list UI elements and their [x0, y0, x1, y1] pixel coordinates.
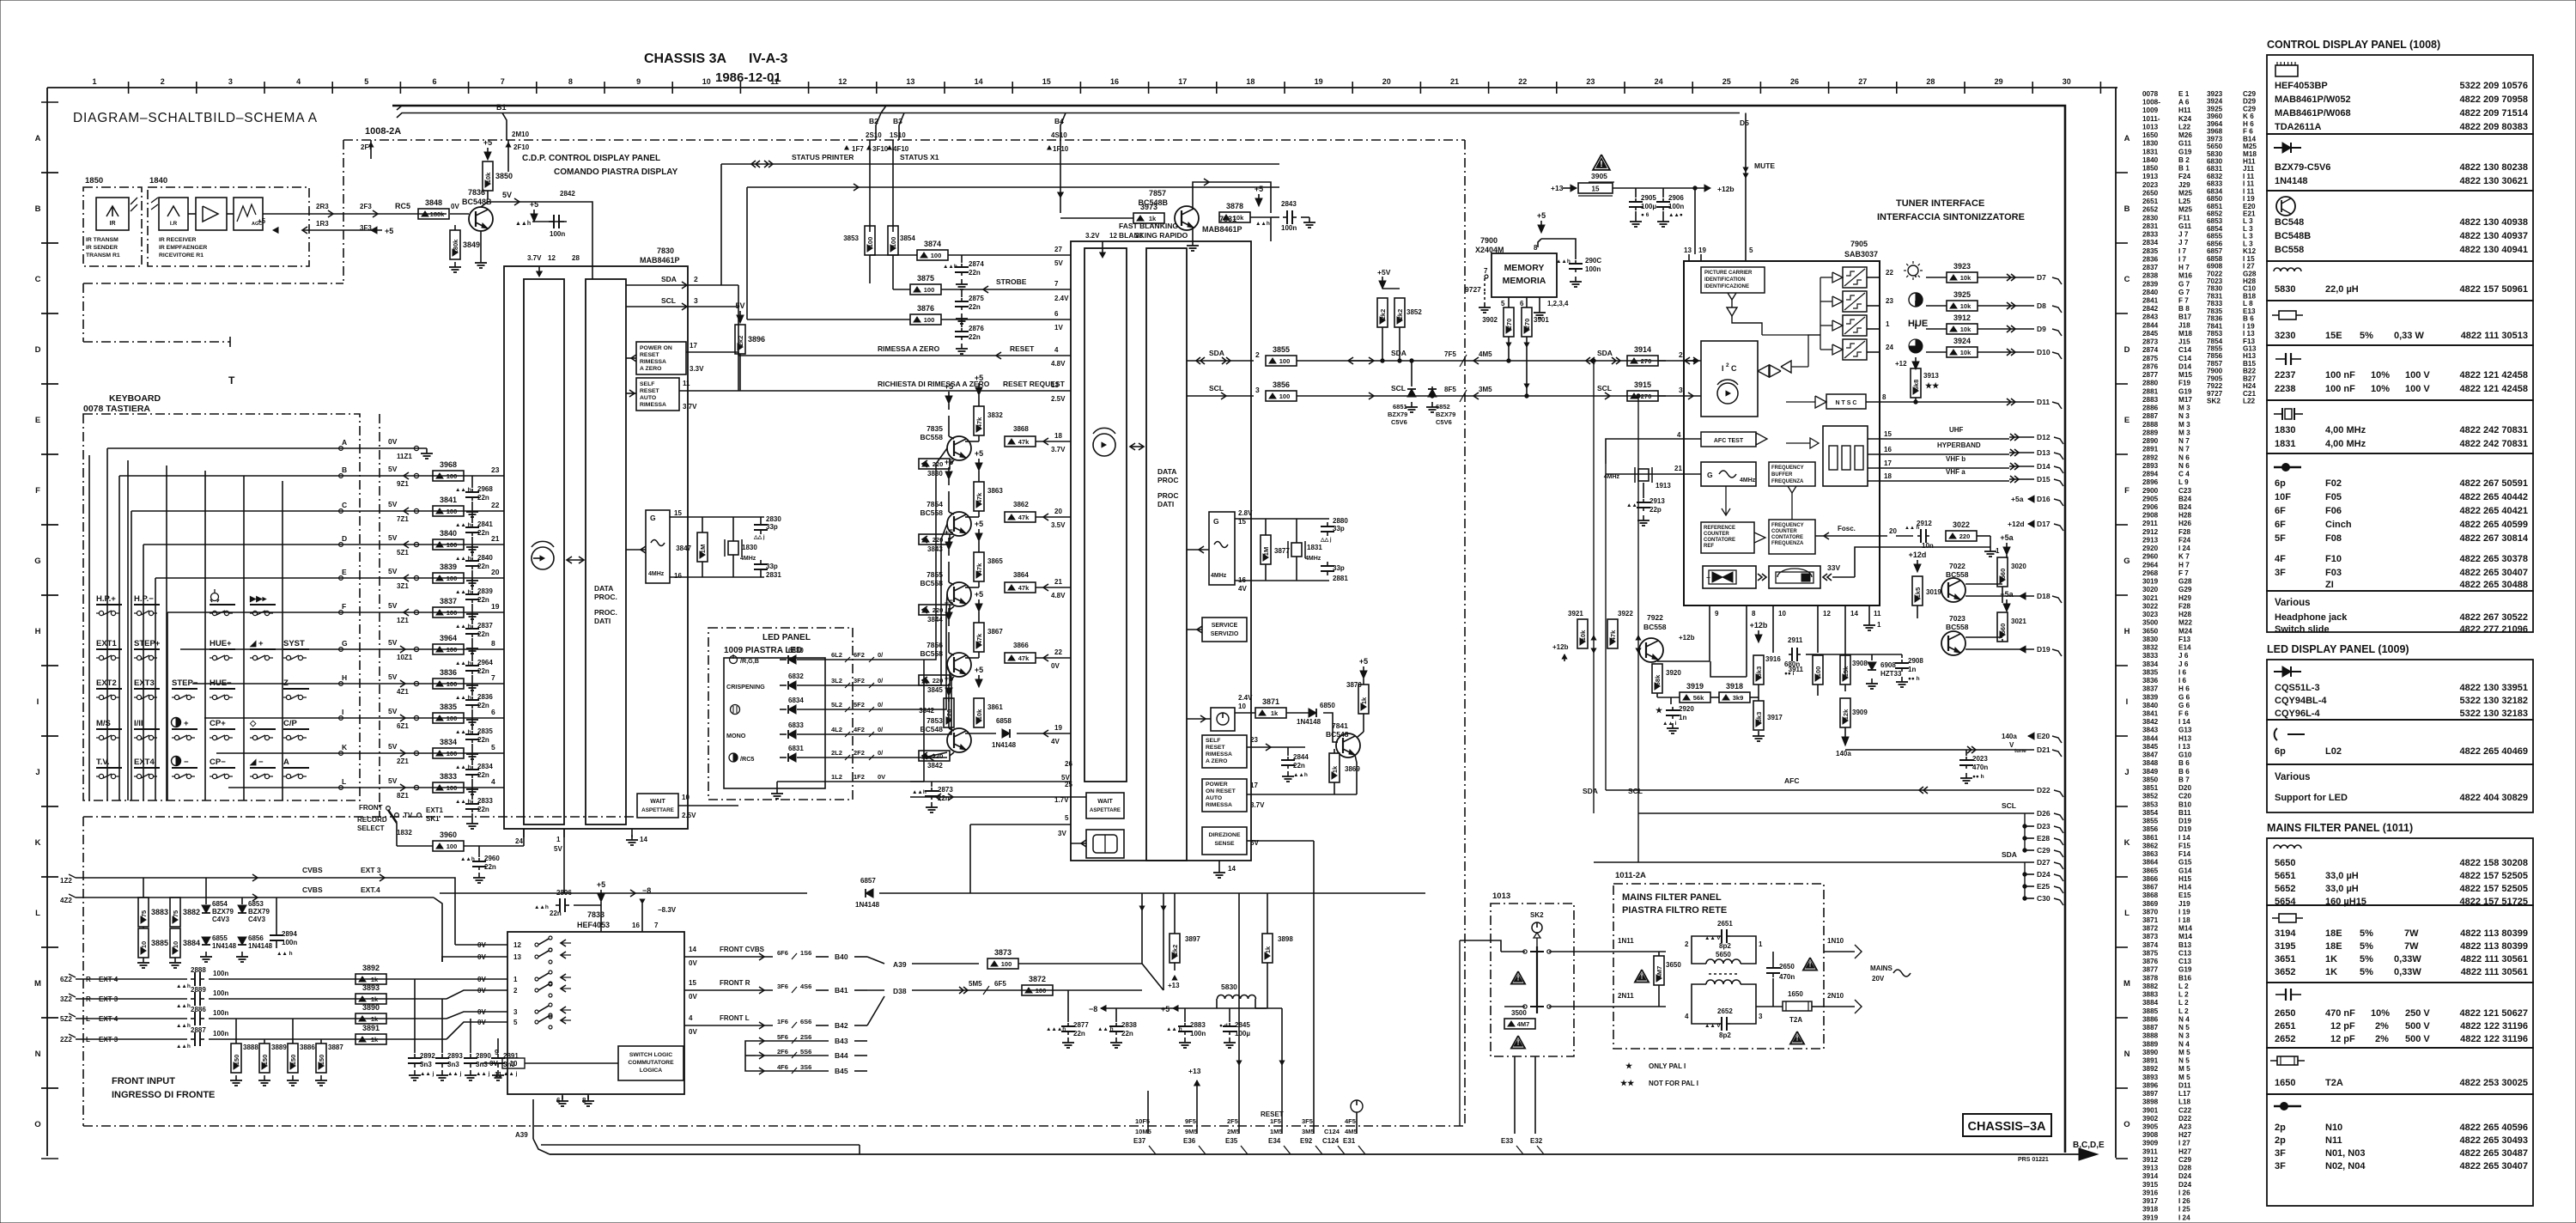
svg-text:4822 121 42458: 4822 121 42458 — [2459, 384, 2528, 394]
svg-text:T2A: T2A — [1789, 1016, 1802, 1024]
transistor 7835 BC558 — [947, 436, 971, 460]
svg-text:H 7: H 7 — [2178, 561, 2190, 569]
svg-text:4822 121 50627: 4822 121 50627 — [2459, 1008, 2528, 1019]
svg-text:2845: 2845 — [1235, 1021, 1250, 1029]
svg-text:18: 18 — [1246, 77, 1255, 86]
svg-text:BZX79-C5V6: BZX79-C5V6 — [2275, 162, 2330, 173]
svg-text:IDENTIFICATION: IDENTIFICATION — [1704, 277, 1746, 283]
svg-text:BC548B: BC548B — [2275, 231, 2311, 241]
svg-text:M18: M18 — [2178, 330, 2192, 338]
svg-text:2881: 2881 — [1333, 575, 1348, 582]
svg-text:7023: 7023 — [1949, 614, 1965, 623]
svg-text:△△ j: △△ j — [1320, 537, 1332, 543]
svg-text:22n: 22n — [477, 771, 489, 779]
svg-text:3230: 3230 — [2275, 331, 2295, 341]
svg-text:7905: 7905 — [1850, 240, 1868, 248]
svg-text:3Z1: 3Z1 — [397, 582, 409, 590]
svg-text:M14: M14 — [2178, 925, 2192, 933]
svg-text:4822 265 30378: 4822 265 30378 — [2459, 554, 2528, 564]
svg-text:3886: 3886 — [300, 1044, 315, 1051]
svg-text:M25: M25 — [2178, 206, 2192, 214]
svg-text:+5: +5 — [385, 227, 393, 235]
svg-text:3854: 3854 — [2142, 809, 2159, 817]
svg-text:2841: 2841 — [2142, 297, 2159, 305]
svg-text:4MHz: 4MHz — [648, 571, 665, 577]
svg-text:3844: 3844 — [2142, 734, 2159, 742]
svg-text:J15: J15 — [2178, 338, 2190, 346]
resistor 3856 100 — [1266, 391, 1297, 401]
svg-text:3847: 3847 — [676, 545, 691, 552]
parts box capacitors 2237/2238 — [2267, 345, 2533, 400]
svg-text:5V: 5V — [388, 500, 398, 508]
svg-text:4.8V: 4.8V — [1051, 592, 1066, 599]
svg-text:3911: 3911 — [1789, 666, 1804, 673]
svg-text:4S10: 4S10 — [1051, 131, 1067, 139]
svg-text:+5: +5 — [1537, 211, 1546, 220]
svg-text:2k2: 2k2 — [1379, 309, 1387, 320]
svg-text:7841: 7841 — [1332, 721, 1348, 730]
svg-text:12: 12 — [1823, 610, 1831, 618]
svg-text:1n: 1n — [1679, 714, 1686, 721]
svg-text:2831: 2831 — [766, 571, 781, 579]
keyboard line E — [341, 577, 504, 579]
svg-text:2M10: 2M10 — [512, 131, 530, 138]
resistor 3915 270 — [1627, 391, 1658, 401]
svg-text:3864: 3864 — [1013, 571, 1029, 579]
svg-text:TUNER INTERFACE: TUNER INTERFACE — [1896, 198, 1984, 209]
svg-text:E15: E15 — [2178, 891, 2191, 899]
svg-text:BZX79: BZX79 — [1388, 411, 1407, 418]
resistor 3840 100 — [433, 539, 464, 550]
svg-text:2M5: 2M5 — [1227, 1128, 1240, 1135]
svg-text:B 2: B 2 — [2178, 156, 2190, 164]
svg-text:8p2: 8p2 — [1719, 1031, 1731, 1039]
svg-text:2.8V: 2.8V — [1238, 509, 1253, 517]
svg-text:E25: E25 — [2037, 882, 2050, 891]
svg-text:B,C,D,E: B,C,D,E — [2073, 1141, 2105, 1150]
svg-text:4822 267 50591: 4822 267 50591 — [2459, 478, 2528, 489]
svg-text:3909: 3909 — [2142, 1140, 2159, 1147]
svg-text:3834: 3834 — [2142, 660, 2159, 668]
svg-text:3863: 3863 — [2142, 850, 2159, 858]
svg-text:+12b: +12b — [1679, 634, 1695, 642]
svg-text:11: 11 — [495, 1071, 502, 1079]
svg-text:VHF b: VHF b — [1946, 455, 1965, 463]
svg-text:4M5: 4M5 — [1479, 350, 1492, 358]
svg-text:SK2: SK2 — [2207, 398, 2221, 405]
svg-text:●● h: ●● h — [1908, 676, 1920, 682]
svg-text:E13: E13 — [2243, 307, 2256, 315]
svg-text:2845: 2845 — [2142, 330, 2159, 338]
svg-text:◢ +: ◢ + — [249, 639, 264, 648]
svg-text:I 6: I 6 — [2178, 668, 2187, 676]
svg-text:J18: J18 — [2178, 321, 2190, 329]
svg-text:2831: 2831 — [2142, 222, 2159, 230]
svg-text:3853: 3853 — [2142, 800, 2159, 808]
svg-text:AUTO: AUTO — [1206, 795, 1222, 801]
diode 6850 1N4148 — [1309, 709, 1316, 717]
box WAIT ASPETTARE IC2 — [1086, 793, 1124, 818]
capacitor 2920 1n — [1670, 697, 1672, 704]
+13 arrow bottom — [1194, 1080, 1200, 1086]
svg-text:14: 14 — [689, 946, 696, 953]
svg-text:0V: 0V — [477, 976, 486, 983]
svg-text:3843: 3843 — [2142, 727, 2159, 734]
svg-text:3964: 3964 — [440, 634, 457, 642]
svg-text:E: E — [2124, 416, 2129, 425]
svg-text:▲▲ h: ▲▲ h — [455, 695, 471, 701]
svg-text:5Z1: 5Z1 — [397, 549, 409, 557]
svg-text:3500: 3500 — [1511, 1009, 1527, 1017]
svg-text:2843: 2843 — [2142, 313, 2159, 321]
svg-text:3n3: 3n3 — [447, 1061, 459, 1068]
svg-text:4822 113 80399: 4822 113 80399 — [2460, 928, 2528, 939]
svg-text:3847: 3847 — [2142, 751, 2159, 759]
svg-text:WAIT: WAIT — [650, 799, 665, 805]
svg-text:A23: A23 — [2178, 1123, 2191, 1131]
svg-text:2875: 2875 — [2142, 355, 2159, 362]
sample hold cell 2 — [1832, 296, 1843, 307]
svg-text:3020: 3020 — [2011, 563, 2026, 570]
svg-text:20V: 20V — [1872, 975, 1885, 983]
svg-text:E: E — [342, 568, 347, 576]
resistor 3896 2k2 — [735, 325, 745, 354]
svg-text:3845: 3845 — [927, 686, 943, 694]
svg-text:6851: 6851 — [1393, 403, 1407, 411]
svg-text:4MHz: 4MHz — [1740, 478, 1756, 484]
svg-text:3861: 3861 — [987, 703, 1003, 711]
svg-text:M25: M25 — [2178, 189, 2192, 197]
svg-text:L 3: L 3 — [2243, 225, 2253, 233]
band box — [1823, 426, 1868, 486]
svg-text:M/S: M/S — [96, 719, 111, 728]
svg-text:C: C — [35, 275, 41, 284]
svg-text:7: 7 — [654, 922, 659, 929]
resistor 3850 10k — [483, 161, 493, 191]
svg-text:5650: 5650 — [2275, 858, 2295, 868]
svg-text:26: 26 — [1790, 77, 1799, 86]
svg-text:2840: 2840 — [2142, 289, 2159, 296]
svg-text:E20: E20 — [2037, 732, 2050, 740]
svg-text:2896: 2896 — [556, 889, 572, 897]
resistor 3925 10k — [1947, 301, 1978, 311]
wires down from IC2 bottom to connector row — [1238, 893, 1240, 1134]
svg-text:L 3: L 3 — [2243, 217, 2253, 225]
svg-text:H11: H11 — [2243, 157, 2256, 165]
svg-text:L 2: L 2 — [2178, 983, 2189, 990]
svg-text:1N4148: 1N4148 — [1297, 718, 1321, 726]
svg-text:● d: ● d — [1219, 1023, 1228, 1029]
svg-text:3021: 3021 — [2011, 618, 2026, 625]
svg-text:6k8: 6k8 — [1912, 380, 1920, 391]
svg-text:▶▶▸: ▶▶▸ — [249, 594, 268, 604]
svg-text:3k3: 3k3 — [1755, 712, 1763, 723]
svg-text:5830: 5830 — [2275, 284, 2295, 295]
svg-text:3851: 3851 — [2142, 784, 2159, 792]
svg-text:16: 16 — [632, 922, 640, 929]
keyboard line B — [341, 475, 504, 477]
svg-text:4822 157 50961: 4822 157 50961 — [2459, 284, 2528, 295]
svg-text:3901: 3901 — [2142, 1106, 2159, 1114]
warning 3905 assembly — [1593, 155, 1610, 170]
svg-text:2S6: 2S6 — [800, 1033, 811, 1041]
svg-text:3019: 3019 — [2142, 578, 2159, 586]
svg-text:+: + — [184, 719, 189, 728]
keyboard line C — [341, 510, 504, 512]
svg-text:● 6: ● 6 — [1641, 212, 1649, 218]
parts box diodes — [2267, 134, 2533, 191]
svg-text:UHF: UHF — [1949, 426, 1964, 434]
resistor 3854 100 — [888, 226, 898, 255]
svg-text:23: 23 — [491, 465, 500, 474]
svg-text:A 6: A 6 — [2178, 99, 2190, 106]
svg-text:C4V3: C4V3 — [248, 916, 266, 923]
svg-text:+5a: +5a — [2000, 590, 2014, 599]
svg-text:2894: 2894 — [282, 930, 297, 938]
transistor 7841 BC548 — [1336, 733, 1360, 758]
svg-text:2964: 2964 — [2142, 561, 2159, 569]
svg-text:3845: 3845 — [2142, 743, 2159, 751]
box POWER ON RESET IC1 — [636, 342, 686, 374]
svg-text:25: 25 — [1722, 77, 1731, 86]
svg-text:4822 111 30513: 4822 111 30513 — [2461, 331, 2528, 341]
svg-text:4822 265 40421: 4822 265 40421 — [2459, 506, 2528, 516]
svg-text:10: 10 — [702, 77, 711, 86]
svg-text:SDA: SDA — [1209, 349, 1224, 357]
svg-text:3852: 3852 — [1406, 308, 1422, 316]
capacitor 2906 100n — [1662, 188, 1664, 198]
svg-text:3862: 3862 — [1013, 501, 1029, 508]
svg-text:100n: 100n — [1281, 224, 1297, 232]
svg-text:▲▲ j: ▲▲ j — [447, 1071, 462, 1077]
svg-text:MAB8461P/W068: MAB8461P/W068 — [2275, 108, 2351, 119]
svg-text:DATA: DATA — [1157, 467, 1176, 476]
IC 7830 core left — [524, 279, 564, 824]
resistor 3867 47k vertical — [974, 623, 984, 652]
svg-text:6p: 6p — [2275, 746, 2286, 757]
resistor 3888 150 — [231, 1044, 241, 1073]
svg-text:15: 15 — [1042, 77, 1051, 86]
svg-text:H 6: H 6 — [2243, 120, 2254, 128]
svg-text:ONLY PAL I: ONLY PAL I — [1649, 1062, 1686, 1070]
svg-text:3830: 3830 — [2142, 636, 2159, 643]
capacitor 2889 100n — [191, 998, 195, 1000]
svg-text:D26: D26 — [2037, 809, 2050, 818]
svg-text:SAB3037: SAB3037 — [1844, 250, 1878, 259]
svg-text:2651: 2651 — [2142, 198, 2159, 205]
svg-text:2k2: 2k2 — [1171, 945, 1179, 956]
svg-text:6833: 6833 — [2207, 180, 2223, 188]
svg-text:3n3: 3n3 — [476, 1061, 488, 1068]
svg-text:COUNTER: COUNTER — [1771, 529, 1797, 534]
svg-text:D16: D16 — [2037, 495, 2050, 503]
svg-text:2886: 2886 — [2142, 405, 2159, 412]
svg-text:2880: 2880 — [1333, 517, 1348, 525]
svg-text:1008-: 1008- — [2142, 99, 2160, 106]
svg-text:3891: 3891 — [2142, 1057, 2159, 1065]
svg-text:19: 19 — [491, 602, 500, 611]
svg-text:4822 130 80238: 4822 130 80238 — [2459, 162, 2528, 173]
amp triangle in 1840 — [196, 198, 227, 230]
svg-text:1N10: 1N10 — [1827, 937, 1844, 945]
svg-text:BUFFER: BUFFER — [1771, 472, 1793, 478]
svg-text:100 nF: 100 nF — [2325, 370, 2355, 380]
warning triangle filter left — [1635, 970, 1649, 983]
svg-text:5V: 5V — [735, 301, 744, 310]
svg-text:SELECT: SELECT — [357, 824, 385, 832]
svg-text:FREQUENCY: FREQUENCY — [1771, 465, 1804, 471]
wire top bus lower — [397, 113, 1740, 119]
svg-text:1: 1 — [1886, 320, 1890, 328]
svg-text:▲▲h: ▲▲h — [1556, 259, 1571, 265]
svg-text:4M7: 4M7 — [1517, 1020, 1530, 1028]
svg-text:6857: 6857 — [860, 877, 876, 885]
svg-text:▲▲h: ▲▲h — [515, 221, 531, 227]
svg-text:B13: B13 — [2178, 941, 2191, 949]
svg-text:EXT2: EXT2 — [96, 678, 117, 688]
svg-text:CP−: CP− — [210, 758, 226, 767]
svg-text:+5: +5 — [945, 528, 953, 537]
svg-text:3868: 3868 — [1013, 425, 1029, 433]
capacitor 2900 100n — [1575, 260, 1577, 264]
svg-text:▲▲h: ▲▲h — [943, 264, 957, 270]
svg-text:19: 19 — [1054, 724, 1062, 732]
svg-text:▲▲ h: ▲▲ h — [455, 589, 471, 595]
svg-text:FRONT R: FRONT R — [720, 979, 750, 987]
svg-text:C: C — [1731, 364, 1737, 373]
svg-text:F06: F06 — [2325, 506, 2342, 516]
svg-text:2R3: 2R3 — [316, 203, 329, 210]
svg-text:3913: 3913 — [1923, 372, 1939, 380]
svg-text:C29: C29 — [2243, 105, 2256, 113]
svg-text:PRS 01221: PRS 01221 — [2018, 1157, 2049, 1163]
svg-text:+12d: +12d — [1909, 551, 1927, 559]
svg-text:4: 4 — [491, 777, 495, 786]
svg-text:3855: 3855 — [1273, 345, 1290, 354]
svg-text:3888: 3888 — [2142, 1032, 2159, 1040]
wire IC1 pin1 5V rail — [563, 829, 565, 893]
wire A39 feeder — [541, 1144, 860, 1146]
svg-text:1M: 1M — [699, 545, 707, 553]
svg-text:33p: 33p — [766, 563, 778, 570]
svg-text:HUE+: HUE+ — [210, 639, 232, 648]
svg-text:C124: C124 — [1324, 1128, 1340, 1135]
svg-text:1830: 1830 — [2142, 140, 2159, 148]
svg-text:A39: A39 — [893, 960, 907, 969]
svg-text:2841: 2841 — [477, 520, 493, 528]
svg-text:23: 23 — [1886, 297, 1893, 305]
parts box capacitors 2650-2652 — [2267, 983, 2533, 1048]
svg-text:4MHz: 4MHz — [1305, 556, 1321, 562]
svg-text:RICHIESTA DI RIMESSA A ZER: RICHIESTA DI RIMESSA A ZERO — [878, 380, 990, 388]
svg-text:2920: 2920 — [1679, 705, 1694, 713]
svg-text:L02: L02 — [2325, 746, 2342, 757]
svg-text:D28: D28 — [2178, 1165, 2191, 1172]
resistor 3830 220 — [919, 459, 950, 469]
svg-text:3F: 3F — [2275, 1161, 2286, 1171]
svg-text:BC548B: BC548B — [1138, 198, 1168, 207]
LED 6830 — [730, 656, 738, 664]
svg-text:Support for LED: Support for LED — [2275, 793, 2348, 803]
svg-text:I 26: I 26 — [2178, 1197, 2190, 1205]
svg-text:▲▲●: ▲▲● — [1668, 212, 1683, 218]
svg-text:150: 150 — [318, 1055, 325, 1066]
svg-text:SDA: SDA — [1583, 787, 1598, 795]
svg-text:10%: 10% — [2371, 370, 2390, 380]
svg-text:7922: 7922 — [1647, 613, 1663, 622]
svg-text:RESET: RESET — [1010, 344, 1035, 353]
svg-text:4822 267 30814: 4822 267 30814 — [2459, 533, 2528, 544]
svg-text:20: 20 — [1382, 77, 1391, 86]
svg-text:4822 157 52505: 4822 157 52505 — [2459, 871, 2528, 881]
svg-text:2883: 2883 — [1190, 1021, 1206, 1029]
svg-text:2889: 2889 — [2142, 429, 2159, 436]
svg-text:6Z1: 6Z1 — [397, 722, 409, 730]
svg-text:7857: 7857 — [1149, 189, 1166, 198]
svg-text:47k: 47k — [1609, 630, 1617, 641]
svg-text:▲▲h: ▲▲h — [176, 983, 191, 989]
svg-text:3865: 3865 — [987, 557, 1003, 565]
svg-text:6L2: 6L2 — [831, 651, 842, 659]
resistor 3924 10k — [1947, 347, 1978, 357]
svg-text:100: 100 — [447, 750, 458, 758]
svg-text:7830: 7830 — [2207, 285, 2223, 293]
resistor 3887 150 — [316, 1044, 326, 1073]
resistor 3868 47k — [1005, 436, 1036, 447]
svg-text:2652: 2652 — [2142, 206, 2159, 214]
svg-text:RC5: RC5 — [395, 202, 410, 210]
svg-text:4,00 MHz: 4,00 MHz — [2325, 425, 2366, 435]
svg-text:H: H — [35, 627, 41, 636]
svg-text:75: 75 — [172, 910, 179, 917]
svg-text:2888: 2888 — [191, 966, 206, 974]
resistor 3878 10k — [1219, 212, 1250, 222]
resistor 3921 10k vertical — [1577, 619, 1588, 648]
svg-text:3891: 3891 — [362, 1024, 380, 1032]
svg-text:4: 4 — [1054, 346, 1059, 354]
resistor 3923 10k — [1947, 272, 1978, 283]
svg-text:21: 21 — [491, 534, 500, 543]
svg-text:2.4V: 2.4V — [1238, 694, 1253, 702]
svg-text:+13: +13 — [1551, 184, 1564, 192]
svg-text:5%: 5% — [2360, 967, 2373, 977]
svg-text:3867: 3867 — [2142, 884, 2159, 891]
svg-text:5: 5 — [513, 1019, 518, 1026]
LED panel inner box — [724, 658, 825, 788]
svg-text:3871: 3871 — [1262, 697, 1279, 706]
svg-text:100n: 100n — [213, 989, 228, 997]
svg-text:16: 16 — [674, 572, 682, 580]
svg-text:−: − — [184, 758, 189, 767]
svg-text:E14: E14 — [2178, 644, 2191, 652]
svg-text:I 14: I 14 — [2178, 718, 2190, 726]
svg-text:1k: 1k — [371, 1015, 379, 1023]
svg-text:4S6: 4S6 — [800, 983, 811, 990]
svg-text:2Z1: 2Z1 — [397, 758, 409, 765]
svg-text:I/II: I/II — [134, 719, 143, 728]
svg-text:CQY94BL-4: CQY94BL-4 — [2275, 696, 2327, 706]
box direction icon IC2 — [1086, 830, 1124, 858]
svg-text:4822 242 70831: 4822 242 70831 — [2459, 425, 2528, 435]
resistor 3839 100 — [433, 573, 464, 583]
svg-text:2920: 2920 — [2142, 545, 2159, 552]
svg-text:2881: 2881 — [2142, 387, 2159, 395]
svg-text:8p2: 8p2 — [1719, 942, 1731, 950]
svg-text:1830: 1830 — [2275, 425, 2295, 435]
diode 6852 BZX79 C5V6 — [1431, 386, 1433, 396]
svg-text:SCL: SCL — [2002, 801, 2016, 810]
svg-text:22n: 22n — [477, 667, 489, 675]
